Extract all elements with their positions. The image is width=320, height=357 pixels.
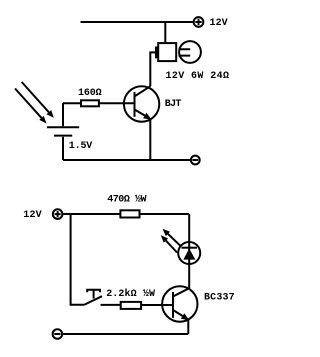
- push button S1: [84, 290, 102, 305]
- svg-text:12V: 12V: [210, 18, 228, 29]
- resistor R1 160Ω: [63, 100, 135, 106]
- svg-text:160Ω: 160Ω: [78, 88, 102, 99]
- svg-text:12V: 12V: [23, 210, 42, 221]
- terminal +12V top: [194, 17, 204, 27]
- terminal - top circuit: [191, 156, 200, 165]
- solar cell battery 1.5V: [47, 103, 79, 160]
- wire lamp left contact to collector: [150, 52, 155, 86]
- wire right rail to LED and collector: [188, 214, 190, 288]
- resistor R2 470Ω: [120, 210, 189, 217]
- svg-text:BC337: BC337: [204, 292, 235, 303]
- svg-text:2.2kΩ ½W: 2.2kΩ ½W: [106, 288, 155, 300]
- LED D1: [178, 242, 200, 264]
- light arrow 2: [15, 89, 47, 124]
- wire emitter vertical Q1: [149, 119, 151, 161]
- svg-text:1.5V: 1.5V: [69, 141, 93, 152]
- LED light arrow 1: [163, 229, 181, 247]
- wire top supply rail: [81, 21, 194, 23]
- svg-text:12V 6W 24Ω: 12V 6W 24Ω: [166, 71, 230, 82]
- wire bottom rail top circuit: [63, 159, 190, 161]
- resistor R3 2.2kΩ: [121, 302, 173, 309]
- transistor Q1 BJT: [124, 86, 159, 122]
- wire lamp top feed: [164, 22, 166, 43]
- wire left rail push button branch: [71, 214, 84, 305]
- wire + to resistor: [63, 213, 121, 215]
- wire emitter vertical Q2: [187, 320, 189, 334]
- lamp 12V 6W: [155, 41, 201, 63]
- transistor Q2 BC337: [162, 286, 197, 321]
- terminal + bottom circuit: [53, 209, 63, 219]
- wire bottom rail bottom circuit: [62, 333, 188, 335]
- terminal - bottom circuit: [53, 329, 63, 339]
- svg-text:BJT: BJT: [165, 99, 182, 110]
- light arrow 1: [22, 82, 54, 118]
- LED light arrow 2: [161, 235, 177, 252]
- wire switch right contact: [101, 304, 121, 306]
- svg-text:470Ω ½W: 470Ω ½W: [107, 194, 146, 206]
